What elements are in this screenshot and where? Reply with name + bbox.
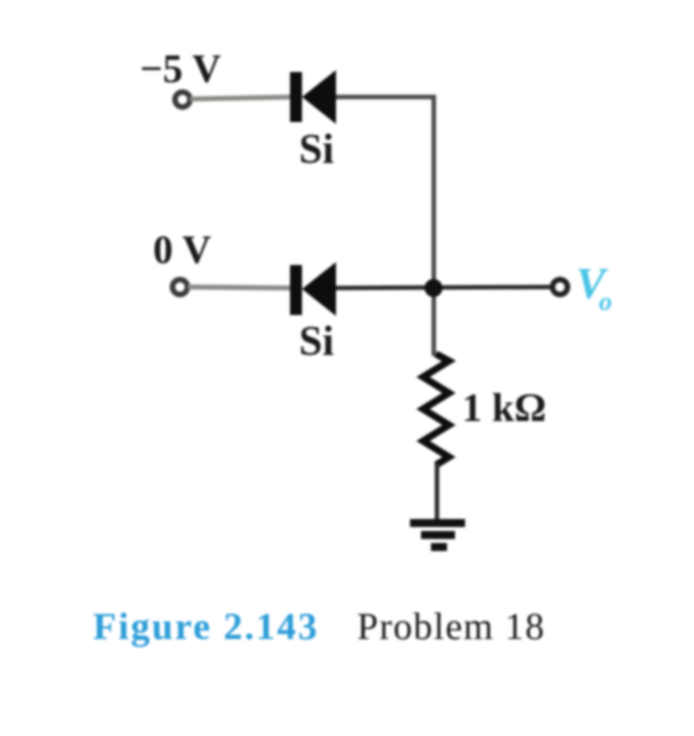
svg-text:Si: Si — [299, 127, 334, 173]
svg-text:−5 V: −5 V — [140, 46, 221, 91]
svg-text:Figure 2.143: Figure 2.143 — [93, 606, 319, 648]
svg-text:1 kΩ: 1 kΩ — [462, 385, 546, 430]
svg-text:Si: Si — [299, 319, 334, 365]
svg-text:o: o — [599, 287, 612, 316]
svg-text:Problem 18: Problem 18 — [357, 606, 545, 648]
svg-text:0 V: 0 V — [153, 227, 211, 272]
